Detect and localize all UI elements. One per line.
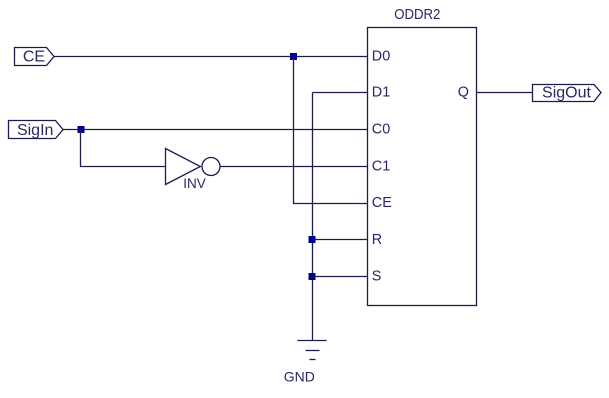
wire pin D1 to ground rail [313,92,368,94]
component U1 ODDR2 body [368,28,477,306]
input port SigIn [9,121,64,140]
ground symbol [298,341,327,360]
svg-text:D1: D1 [372,85,390,101]
svg-text:C0: C0 [372,122,390,138]
wire ground rail vertical [312,93,314,341]
wire inverter output to pin C1 [220,166,368,168]
svg-text:GND: GND [284,369,315,385]
svg-text:C1: C1 [372,158,390,174]
junction node SigIn [78,126,85,133]
svg-text:CE: CE [372,195,392,211]
wire pin Q to SigOut port [477,92,533,94]
svg-text:ODDR2: ODDR2 [394,5,440,22]
svg-text:R: R [372,232,382,248]
junction node S [309,273,316,280]
svg-text:D0: D0 [372,48,390,64]
wire CE port to pin D0 [54,56,368,58]
input port CE [15,48,55,66]
svg-text:S: S [372,269,382,285]
wire junction down and across to pin CE [294,57,368,204]
svg-text:SigOut: SigOut [542,85,591,102]
junction node CE/D0 [290,53,297,60]
svg-text:Q: Q [458,85,469,101]
output port SigOut [533,85,602,102]
wire S junction to pin S [313,276,368,278]
svg-text:CE: CE [23,49,45,66]
wire R junction to pin R [313,239,368,241]
wire SigIn port to pin C0 [63,129,368,131]
wire SigIn junction down and across to inverter input [81,130,166,167]
junction node R [309,236,316,243]
svg-text:SigIn: SigIn [17,122,53,139]
svg-text:INV: INV [183,176,206,191]
inverter U2 [166,149,221,185]
